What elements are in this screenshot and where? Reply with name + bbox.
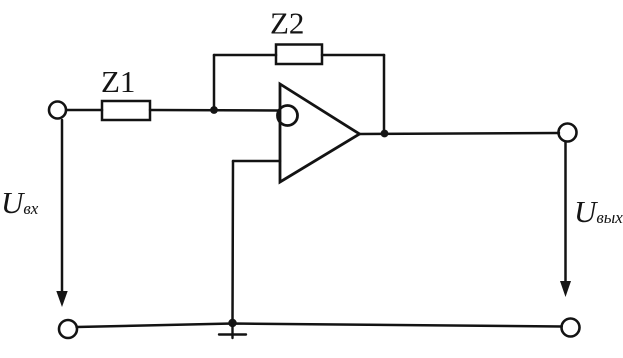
impedance Z2 [276, 45, 322, 65]
wire Z1 to inverting input [150, 109, 279, 112]
input terminal (left, U_vx top) [49, 102, 66, 119]
op-amp inverting input bubble [278, 106, 298, 126]
wire input terminal to Z1 [67, 109, 103, 112]
output terminal (right, U_vyx top) [559, 124, 577, 142]
impedance Z1 [102, 101, 150, 120]
ground junction node [228, 319, 236, 327]
node A (inverting input junction) [210, 106, 218, 114]
wire feedback vertical left [213, 55, 216, 110]
wire Z2 to right feedback corner [322, 54, 384, 57]
svg-text:Z2: Z2 [270, 6, 304, 41]
wire non-inverting input horizontal [233, 160, 280, 163]
arrow U_vyx (right voltage arrow) [560, 142, 571, 297]
bottom-left terminal [59, 320, 77, 338]
bottom-right terminal [562, 319, 580, 337]
arrow U_vx (left voltage arrow) [56, 120, 67, 307]
wire op-amp output to output terminal [360, 133, 560, 134]
node B (output junction) [381, 130, 389, 138]
svg-text:Z1: Z1 [101, 64, 135, 99]
ground [219, 323, 246, 338]
op-amp U1 triangle [280, 84, 360, 182]
wire feedback vertical right down to output node [383, 55, 386, 133]
wire non-inverting input down to ground rail [231, 161, 234, 323]
wire feedback top-left to Z2 [214, 54, 276, 57]
wire bottom rail [77, 324, 562, 328]
